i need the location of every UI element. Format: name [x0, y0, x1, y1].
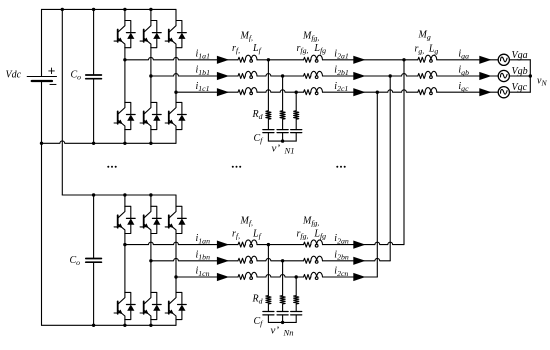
svg-text:−: − [49, 76, 57, 92]
svg-text:Vdc: Vdc [6, 70, 22, 81]
svg-text:Vgc: Vgc [512, 82, 528, 93]
svg-text:Vgb: Vgb [512, 66, 528, 77]
svg-text:Vga: Vga [512, 50, 528, 61]
